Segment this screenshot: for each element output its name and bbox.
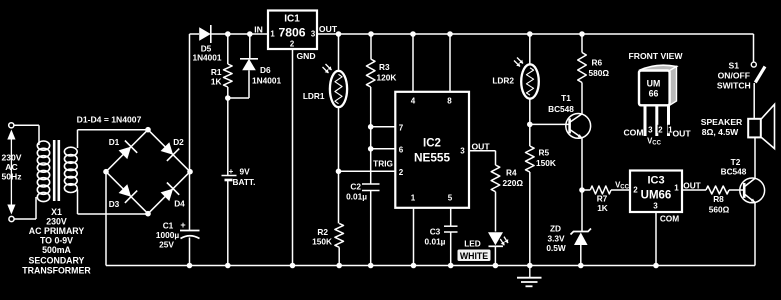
node IC1 GND at bottom rail xyxy=(290,263,296,269)
svg-text:1: 1 xyxy=(270,30,275,39)
svg-text:GND: GND xyxy=(296,51,315,61)
wire bottom rail xyxy=(106,265,755,267)
svg-text:3.3V: 3.3V xyxy=(547,233,565,243)
wire IC3 pin 3 to bottom rail xyxy=(655,212,657,266)
svg-text:8: 8 xyxy=(447,97,452,106)
node LDR2/R5/T1 base junction xyxy=(527,122,533,128)
svg-text:1K: 1K xyxy=(211,76,222,86)
svg-text:7: 7 xyxy=(399,124,404,133)
node LDR1 to pin2/R2 junction xyxy=(336,169,342,175)
wire bridge arm bottom-right xyxy=(148,172,190,214)
resistor R2 xyxy=(312,171,343,265)
diode D3 xyxy=(109,184,138,209)
svg-text:OUT: OUT xyxy=(673,129,692,139)
svg-text:WHITE: WHITE xyxy=(460,251,488,261)
svg-text:SPEAKER: SPEAKER xyxy=(701,117,743,127)
label D1-D4 = 1N4007 xyxy=(77,115,142,125)
node R6 top xyxy=(579,31,585,37)
capacitor C3 xyxy=(425,208,458,266)
UM66 package leg 2 xyxy=(655,105,658,136)
node IC3 COM at bottom rail xyxy=(653,263,659,269)
node LDR1 top xyxy=(336,31,342,37)
wire AC bottom terminal to primary xyxy=(14,197,36,219)
resistor R6 xyxy=(578,34,610,114)
node battery at bottom rail xyxy=(225,263,231,269)
svg-text:1: 1 xyxy=(674,184,679,193)
svg-text:IC2: IC2 xyxy=(423,138,441,150)
svg-text:7806: 7806 xyxy=(278,26,305,40)
label COM at IC3 pin 3 xyxy=(660,213,679,223)
wire T2 collector to speaker xyxy=(754,138,756,179)
svg-text:R4: R4 xyxy=(506,168,517,178)
node R1 top xyxy=(225,31,231,37)
node R3 to IC2 pin 7 xyxy=(368,124,374,130)
svg-text:8Ω, 4.5W: 8Ω, 4.5W xyxy=(702,127,739,137)
svg-text:IC3: IC3 xyxy=(647,175,664,187)
wire AC top terminal to primary xyxy=(14,125,39,145)
UM66 package leg 3 xyxy=(644,105,647,136)
timer IC2 NE555 xyxy=(395,92,469,208)
wire bridge arm left-bottom xyxy=(106,172,148,214)
svg-text:IN: IN xyxy=(254,24,263,34)
svg-text:1N4001: 1N4001 xyxy=(192,53,221,63)
svg-text:BC548: BC548 xyxy=(548,104,574,114)
svg-text:R3: R3 xyxy=(379,62,390,72)
resistor R8 xyxy=(682,186,744,215)
svg-text:ON/OFF: ON/OFF xyxy=(718,71,750,81)
diode D4 xyxy=(161,183,186,209)
label TRIG xyxy=(373,159,393,169)
svg-text:AC: AC xyxy=(5,162,17,172)
svg-text:OUT: OUT xyxy=(319,24,338,34)
svg-text:150K: 150K xyxy=(536,158,556,168)
svg-text:R2: R2 xyxy=(317,227,328,237)
node R5 at bottom rail xyxy=(527,263,533,269)
svg-text:BATT.: BATT. xyxy=(233,177,256,187)
svg-text:+: + xyxy=(229,167,234,176)
node R2 at bottom rail xyxy=(336,263,342,269)
svg-text:2: 2 xyxy=(290,40,295,49)
LED white xyxy=(458,232,509,265)
svg-text:150K: 150K xyxy=(312,237,332,247)
wire bridge negative down to bottom rail xyxy=(105,174,107,266)
svg-text:T2: T2 xyxy=(731,157,741,167)
svg-text:D6: D6 xyxy=(260,65,271,75)
svg-text:NE555: NE555 xyxy=(414,151,451,165)
svg-text:D1: D1 xyxy=(109,137,120,147)
diode D6 xyxy=(240,34,281,98)
svg-text:C2: C2 xyxy=(350,182,361,192)
node R1/D6/battery junction xyxy=(225,95,249,101)
resistor R1 xyxy=(211,34,232,98)
svg-text:230V: 230V xyxy=(1,153,21,163)
resistor R4 xyxy=(491,165,523,232)
transformer X1 primary winding xyxy=(37,141,49,202)
svg-text:TRANSFORMER: TRANSFORMER xyxy=(22,265,91,275)
svg-text:6: 6 xyxy=(399,146,404,155)
svg-text:LED: LED xyxy=(464,239,481,249)
node bridge positive xyxy=(187,169,193,175)
svg-text:25V: 25V xyxy=(159,240,174,250)
svg-text:5: 5 xyxy=(448,194,453,203)
wire switch to speaker xyxy=(753,83,755,119)
svg-text:BC548: BC548 xyxy=(721,167,747,177)
node pins 6-7 junction xyxy=(368,146,374,152)
wire trigger to IC2 pin 2 xyxy=(339,170,396,172)
battery BATT. 9V xyxy=(222,98,256,266)
svg-text:FRONT VIEW: FRONT VIEW xyxy=(629,51,684,61)
label FRONT VIEW xyxy=(629,51,684,61)
svg-text:T1: T1 xyxy=(561,93,571,103)
svg-text:580Ω: 580Ω xyxy=(589,68,610,78)
wire secondary top to bridge AC1 xyxy=(78,130,149,148)
ground xyxy=(517,266,542,287)
resistor R3 xyxy=(366,34,396,127)
svg-text:560Ω: 560Ω xyxy=(709,205,730,215)
svg-text:D3: D3 xyxy=(109,199,120,209)
UM66 package front view xyxy=(639,65,677,105)
svg-text:1K: 1K xyxy=(597,203,608,213)
wire top rail IC1 OUT to switch S1 xyxy=(317,33,754,35)
AC source arrow xyxy=(7,130,15,215)
resistor R7 xyxy=(582,186,630,213)
node IC2 pin 8 at rail xyxy=(447,31,453,37)
label COM front view xyxy=(623,128,643,138)
node C3 at bottom rail xyxy=(448,263,454,269)
AC input terminal top xyxy=(9,123,14,128)
svg-text:TRIG: TRIG xyxy=(373,159,393,169)
node LED at bottom rail xyxy=(493,263,499,269)
svg-text:ZD: ZD xyxy=(550,223,561,233)
svg-text:LDR2: LDR2 xyxy=(492,76,514,86)
diode D5 xyxy=(192,25,221,63)
transistor T2 xyxy=(721,157,765,203)
zener diode ZD 3.3V xyxy=(546,190,591,266)
capacitor C2 xyxy=(346,149,379,266)
label GND xyxy=(296,51,315,61)
svg-text:TO 0-9V: TO 0-9V xyxy=(40,235,73,245)
transformer X1 secondary winding xyxy=(64,147,77,192)
svg-text:2: 2 xyxy=(633,186,638,195)
node R3 top xyxy=(368,31,374,37)
node C1 at bottom rail xyxy=(187,263,193,269)
svg-text:220Ω: 220Ω xyxy=(503,178,524,188)
label 230V AC 50Hz xyxy=(1,153,21,182)
svg-text:4: 4 xyxy=(411,97,416,106)
svg-text:R7: R7 xyxy=(597,194,608,204)
svg-text:0.5W: 0.5W xyxy=(546,243,566,253)
wire to T1 base xyxy=(530,123,570,125)
node T1 emitter / R7 / ZD junction xyxy=(579,187,585,193)
wire secondary bottom to bridge AC2 xyxy=(78,190,149,215)
wire D5 cathode to IC1 pin 1 xyxy=(211,33,268,35)
svg-text:COM: COM xyxy=(623,128,643,138)
label OUT front view xyxy=(673,129,692,139)
wire to IC2 pin 6 xyxy=(371,148,396,150)
node bridge AC top xyxy=(145,127,151,133)
capacitor C1 xyxy=(156,174,200,266)
svg-text:120K: 120K xyxy=(377,73,397,83)
svg-text:50Hz: 50Hz xyxy=(1,172,21,182)
wire bridge arm left-top xyxy=(106,130,148,172)
svg-text:1: 1 xyxy=(411,194,416,203)
resistor R5 xyxy=(526,124,556,265)
LDR LDR1 xyxy=(303,34,347,171)
wire IC2 pin 4 to top rail xyxy=(412,34,414,92)
svg-text:3: 3 xyxy=(460,147,465,156)
svg-text:C1: C1 xyxy=(163,221,174,231)
svg-text:0.01µ: 0.01µ xyxy=(425,236,446,246)
node ZD at bottom rail xyxy=(578,263,584,269)
svg-text:C3: C3 xyxy=(430,227,441,237)
UM66 package leg 1 xyxy=(667,105,670,136)
transistor T1 xyxy=(548,93,591,138)
wire IC2 pin 8 to top rail xyxy=(449,34,451,92)
node C2 at bottom rail xyxy=(368,263,374,269)
wire bridge arm top-right xyxy=(148,130,190,172)
label transformer X1 xyxy=(22,207,91,275)
wire junction pin7 to pin6 xyxy=(370,127,372,149)
node IC2 pin 1 at bottom rail xyxy=(411,263,417,269)
svg-text:R1: R1 xyxy=(211,67,222,77)
svg-text:AC PRIMARY: AC PRIMARY xyxy=(29,226,85,236)
label pin numbers 3 2 1 xyxy=(648,125,673,135)
node LDR2 top xyxy=(527,31,533,37)
svg-text:D1-D4 = 1N4007: D1-D4 = 1N4007 xyxy=(77,115,142,125)
wire to IC2 pin 7 xyxy=(371,126,396,128)
node IC2 pin 4 at rail xyxy=(410,31,416,37)
svg-text:D2: D2 xyxy=(173,137,184,147)
wire T1 emitter down xyxy=(581,138,583,190)
melody IC IC3 UM66 xyxy=(630,171,682,213)
wire IC2 pin 3 to R4 xyxy=(469,151,496,165)
svg-text:230V: 230V xyxy=(46,216,67,226)
switch S1 xyxy=(717,34,765,90)
svg-text:9V: 9V xyxy=(240,167,251,177)
svg-text:R8: R8 xyxy=(713,194,724,204)
svg-text:500mA: 500mA xyxy=(42,245,71,255)
svg-text:S1: S1 xyxy=(729,61,740,71)
svg-text:SECONDARY: SECONDARY xyxy=(29,255,85,265)
transformer X1 core xyxy=(54,140,59,201)
diode D1 xyxy=(109,137,138,159)
svg-text:COM: COM xyxy=(660,213,679,223)
wire top rail from bridge + output up to D5 anode xyxy=(190,34,200,172)
wire IC1 pin 2 GND down to bottom rail xyxy=(292,49,294,266)
label Vcc front view xyxy=(647,136,662,146)
svg-text:SWITCH: SWITCH xyxy=(717,80,751,90)
label OUT of IC3 xyxy=(683,181,701,191)
svg-text:UM: UM xyxy=(647,79,661,89)
wire IC2 pin 1 to bottom rail xyxy=(413,208,415,266)
svg-text:R5: R5 xyxy=(539,148,550,158)
node bridge negative xyxy=(103,169,109,175)
speaker xyxy=(701,104,775,148)
svg-text:LDR1: LDR1 xyxy=(303,91,325,101)
svg-text:+: + xyxy=(180,220,185,230)
svg-text:D4: D4 xyxy=(174,199,185,209)
svg-text:66: 66 xyxy=(649,88,659,98)
op-amp regulator IC1 7806 xyxy=(268,11,317,50)
svg-text:OUT: OUT xyxy=(683,181,701,191)
svg-text:2: 2 xyxy=(658,126,663,135)
label IN xyxy=(254,24,263,34)
LDR LDR2 xyxy=(492,34,538,124)
wire T2 emitter to bottom rail xyxy=(754,202,756,265)
svg-text:1N4001: 1N4001 xyxy=(252,76,281,86)
svg-text:UM66: UM66 xyxy=(641,190,672,202)
diode D2 xyxy=(161,137,185,161)
svg-text:3: 3 xyxy=(311,30,316,39)
svg-text:3: 3 xyxy=(653,202,658,211)
svg-text:3: 3 xyxy=(648,126,653,135)
svg-text:0.01µ: 0.01µ xyxy=(346,192,367,202)
label Vcc at IC3 pin 2 xyxy=(615,181,630,191)
svg-text:IC1: IC1 xyxy=(284,14,300,25)
svg-text:2: 2 xyxy=(399,168,404,177)
svg-text:R6: R6 xyxy=(592,58,603,68)
AC input terminal bottom xyxy=(9,216,14,221)
node D6 cathode xyxy=(247,31,253,37)
label OUT of IC2 xyxy=(472,142,491,152)
node bridge AC bottom xyxy=(145,211,151,217)
label OUT of IC1 xyxy=(319,24,338,34)
svg-text:1000µ: 1000µ xyxy=(156,230,179,240)
